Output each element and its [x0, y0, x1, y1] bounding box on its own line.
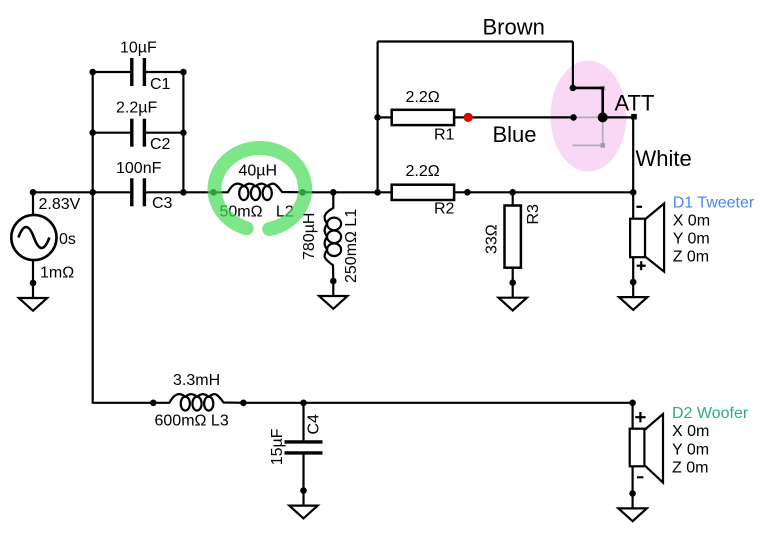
wire left bus down to woofer branch — [92, 192, 94, 403]
svg-text:White: White — [636, 146, 692, 171]
svg-text:10µF: 10µF — [120, 40, 157, 57]
wire C1 row — [93, 71, 131, 73]
wire Blue net: R1 to switch terminal — [453, 116, 573, 118]
wire left capacitor bus — [92, 72, 94, 192]
ATT switch closed arm to Brown — [601, 86, 606, 91]
wire R2 to tweeter junction — [453, 191, 633, 193]
svg-text:15µF: 15µF — [269, 428, 286, 465]
D1 minus sign — [636, 206, 642, 208]
speaker D1 tweeter — [645, 204, 664, 272]
ATT switch open throws (gray) — [574, 116, 603, 118]
wire source bottom stub — [32, 260, 34, 283]
wire White net vertical to tweeter — [632, 117, 634, 219]
node Blue probe (red dot) — [464, 113, 473, 122]
svg-text:0s: 0s — [59, 231, 76, 248]
wire source top stub — [32, 192, 34, 215]
svg-text:40µH: 40µH — [239, 163, 278, 180]
svg-text:D2 Woofer: D2 Woofer — [672, 405, 749, 422]
svg-text:ATT: ATT — [615, 91, 655, 116]
voltage source V1 — [11, 215, 56, 260]
svg-text:250mΩ L1: 250mΩ L1 — [343, 209, 360, 283]
switch common terminal (large dot) — [598, 112, 608, 122]
ground — [300, 487, 307, 494]
wire left branch bus (R1/R2 feed) — [377, 42, 379, 193]
svg-text:C4: C4 — [306, 414, 323, 435]
highlight ring (green) around L2 — [215, 148, 306, 229]
wire Brown net top — [378, 40, 573, 42]
ground — [630, 279, 637, 286]
svg-text:780µH: 780µH — [301, 213, 318, 260]
capacitor C4 — [285, 440, 323, 443]
wire R3 stubs — [512, 192, 514, 206]
svg-text:C2: C2 — [150, 136, 171, 153]
resistor R3 — [505, 206, 521, 268]
D2 minus sign — [637, 476, 643, 478]
D1 plus sign — [637, 265, 646, 267]
inductor L1 — [325, 192, 342, 281]
svg-text:33Ω: 33Ω — [484, 224, 501, 254]
ground — [330, 278, 337, 285]
wire woofer vertical stubs — [631, 403, 633, 430]
svg-text:Blue: Blue — [493, 122, 537, 147]
resistor R1 — [392, 110, 454, 125]
svg-text:Y 0m: Y 0m — [672, 441, 709, 458]
svg-text:D1 Tweeter: D1 Tweeter — [673, 194, 755, 211]
capacitor C2 — [130, 119, 133, 147]
corner square at White bend — [631, 114, 637, 120]
wire bottom bus to L3 — [93, 402, 154, 404]
wire C3 right plate to L2 — [146, 191, 214, 193]
wire tweeter bottom to ground — [632, 257, 634, 283]
D2 plus sign — [635, 416, 645, 418]
svg-text:3.3mH: 3.3mH — [173, 372, 220, 389]
svg-text:1mΩ: 1mΩ — [40, 264, 74, 281]
wire Brown drop to switch — [572, 42, 574, 88]
wire L3 to woofer corner — [243, 402, 632, 404]
svg-text:R2: R2 — [434, 201, 455, 218]
svg-text:C1: C1 — [150, 76, 171, 93]
svg-text:Z 0m: Z 0m — [672, 460, 708, 477]
capacitor C1 — [130, 58, 133, 86]
inductor L3 — [153, 394, 243, 411]
inductor L2 — [214, 184, 303, 201]
ground — [509, 279, 516, 286]
svg-text:100nF: 100nF — [116, 160, 162, 177]
wire switch common to White corner — [603, 116, 634, 118]
wire L2 to R2 — [302, 191, 393, 193]
svg-text:2.2µF: 2.2µF — [116, 100, 157, 117]
junction dots — [30, 189, 37, 196]
wire C2 row — [93, 132, 131, 134]
wire into R1 — [378, 116, 393, 118]
svg-text:600mΩ L3: 600mΩ L3 — [155, 413, 229, 430]
svg-text:R1: R1 — [434, 127, 455, 144]
svg-text:X 0m: X 0m — [673, 212, 710, 229]
svg-text:C3: C3 — [152, 195, 173, 212]
svg-text:2.83V: 2.83V — [39, 196, 81, 213]
svg-text:R3: R3 — [525, 204, 542, 225]
ground — [629, 490, 636, 497]
highlight ellipse (pink) around ATT switch — [551, 61, 627, 172]
svg-text:Z 0m: Z 0m — [673, 248, 709, 265]
svg-text:Brown: Brown — [483, 15, 545, 40]
capacitor C3 — [130, 178, 133, 206]
svg-text:X 0m: X 0m — [672, 423, 709, 440]
svg-text:Y 0m: Y 0m — [673, 231, 710, 248]
resistor R2 — [392, 185, 454, 200]
wire right capacitor bus — [182, 72, 184, 192]
wire main bus from source to C3 left plate — [33, 191, 130, 193]
wire C4 stubs — [302, 403, 304, 441]
svg-text:2.2Ω: 2.2Ω — [406, 89, 440, 106]
ground — [30, 280, 37, 287]
svg-text:2.2Ω: 2.2Ω — [406, 163, 440, 180]
speaker D2 woofer — [644, 414, 663, 483]
